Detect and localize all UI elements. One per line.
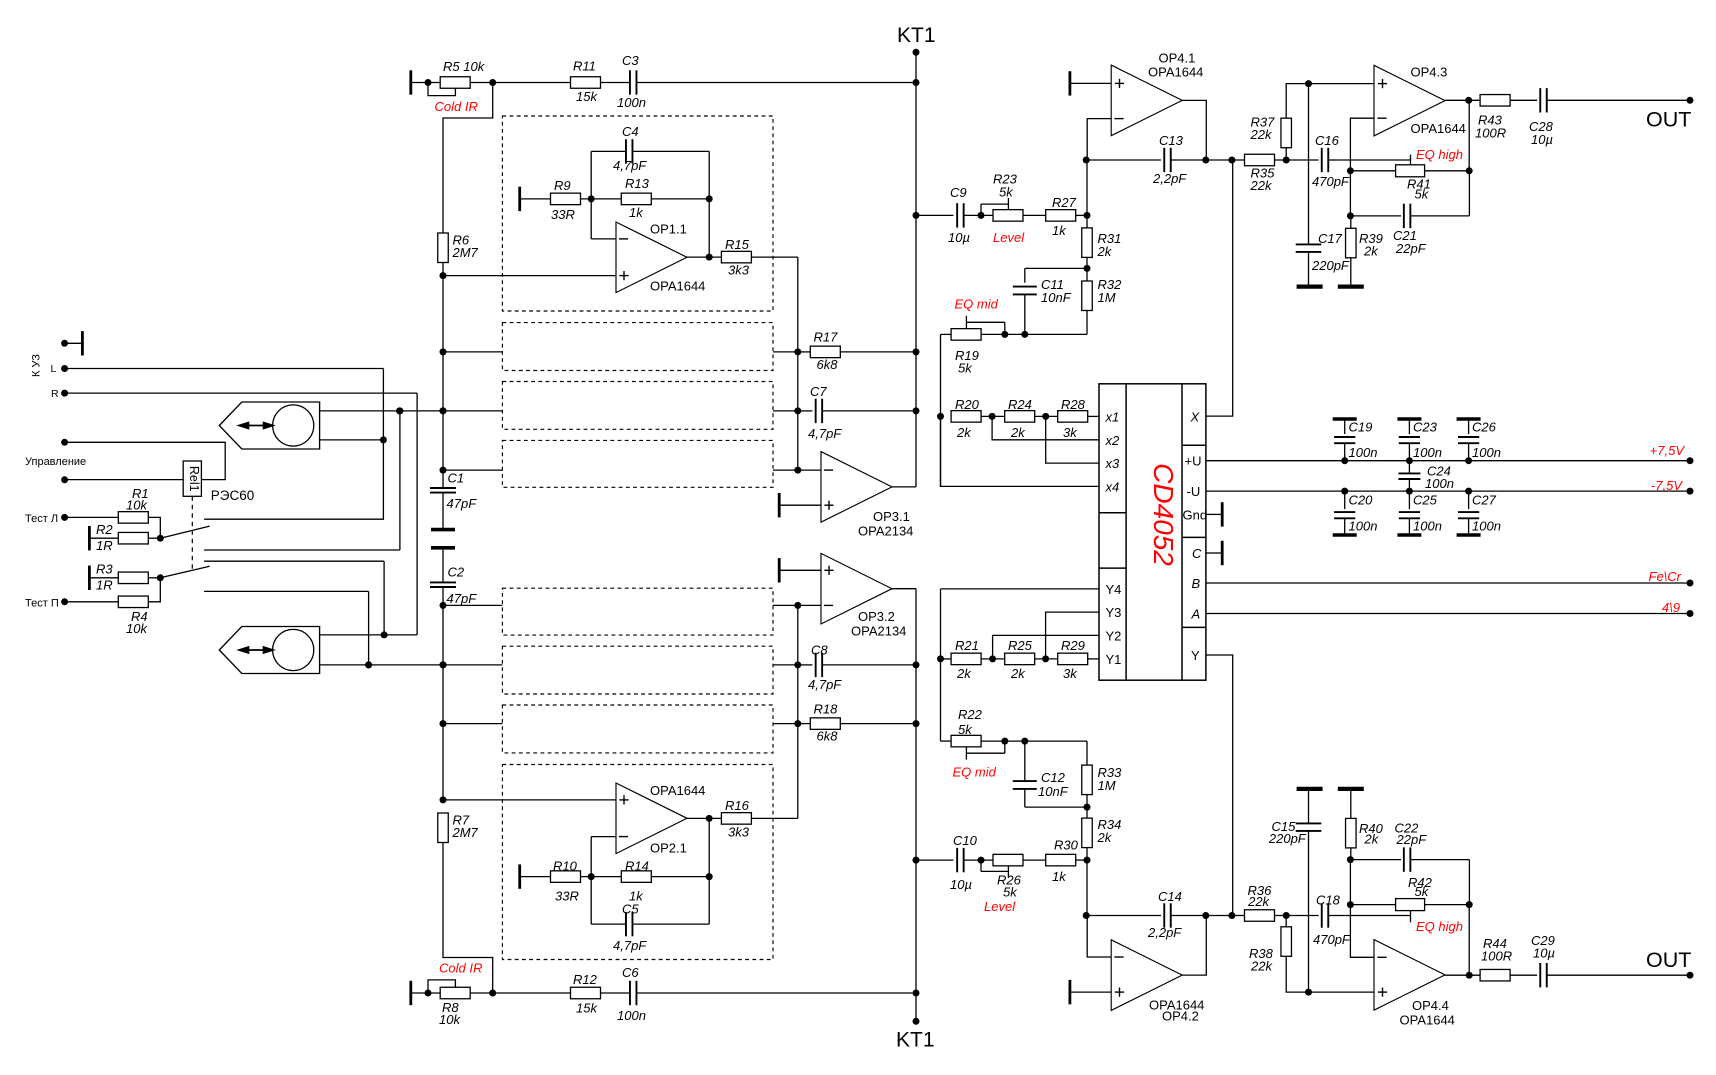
svg-text:100n: 100n — [1425, 476, 1454, 491]
svg-text:R3: R3 — [96, 562, 113, 577]
svg-text:B: B — [1192, 576, 1201, 591]
svg-text:100n: 100n — [617, 1008, 646, 1023]
svg-text:100n: 100n — [1413, 445, 1442, 460]
svg-text:Level: Level — [993, 230, 1025, 245]
svg-text:3k: 3k — [1063, 666, 1078, 681]
svg-text:OP1.1: OP1.1 — [650, 222, 687, 237]
svg-text:OPA1644: OPA1644 — [1148, 65, 1203, 80]
svg-text:1k: 1k — [629, 205, 644, 220]
svg-text:К УЗ: К УЗ — [31, 354, 43, 377]
svg-text:2k: 2k — [1097, 244, 1113, 259]
svg-text:100n: 100n — [1413, 519, 1442, 534]
svg-text:Y3: Y3 — [1106, 605, 1122, 620]
svg-text:OP4.4: OP4.4 — [1412, 998, 1449, 1013]
svg-text:R16: R16 — [725, 798, 750, 813]
svg-text:C3: C3 — [622, 53, 639, 68]
svg-text:R17: R17 — [814, 330, 839, 345]
svg-text:47pF: 47pF — [447, 591, 478, 606]
svg-text:3k3: 3k3 — [728, 263, 750, 278]
svg-text:C19: C19 — [1349, 420, 1373, 435]
svg-text:10k: 10k — [126, 498, 148, 513]
svg-text:R9: R9 — [554, 178, 571, 193]
svg-text:C27: C27 — [1472, 493, 1497, 508]
svg-text:R29: R29 — [1061, 638, 1085, 653]
svg-text:A: A — [1191, 607, 1201, 622]
svg-text:Тест Л: Тест Л — [25, 513, 58, 525]
svg-text:4,7pF: 4,7pF — [613, 158, 647, 173]
svg-text:47pF: 47pF — [447, 496, 478, 511]
svg-text:Y1: Y1 — [1106, 652, 1122, 667]
svg-text:C5: C5 — [622, 902, 639, 917]
svg-text:5k: 5k — [1415, 187, 1430, 202]
svg-text:2k: 2k — [1010, 666, 1026, 681]
svg-text:2,2pF: 2,2pF — [1147, 925, 1182, 940]
svg-text:R11: R11 — [573, 59, 596, 74]
svg-text:100n: 100n — [617, 95, 646, 110]
svg-text:R12: R12 — [573, 972, 598, 987]
svg-text:22k: 22k — [1247, 894, 1270, 909]
svg-text:6k8: 6k8 — [817, 357, 839, 372]
svg-text:10µ: 10µ — [1533, 946, 1555, 961]
svg-text:R13: R13 — [625, 176, 650, 191]
svg-text:2k: 2k — [956, 425, 972, 440]
svg-text:2k: 2k — [1097, 830, 1113, 845]
svg-text:4\9: 4\9 — [1662, 600, 1680, 615]
svg-text:Gnd: Gnd — [1183, 507, 1208, 522]
svg-text:10µ: 10µ — [948, 230, 970, 245]
svg-text:EQ mid: EQ mid — [953, 765, 997, 780]
svg-text:R18: R18 — [814, 702, 839, 717]
svg-text:5k: 5k — [999, 185, 1014, 200]
svg-text:R22: R22 — [958, 707, 983, 722]
svg-text:4,7pF: 4,7pF — [808, 426, 842, 441]
svg-text:OPA1644: OPA1644 — [1400, 1013, 1455, 1028]
svg-text:1k: 1k — [1052, 223, 1067, 238]
svg-text:OPA1644: OPA1644 — [650, 279, 705, 294]
svg-text:Y: Y — [1191, 648, 1200, 663]
svg-text:470pF: 470pF — [1313, 932, 1351, 947]
svg-text:Rel1: Rel1 — [187, 466, 201, 492]
svg-text:C10: C10 — [953, 833, 978, 848]
svg-text:4,7pF: 4,7pF — [613, 938, 647, 953]
svg-text:5k: 5k — [1415, 884, 1430, 899]
svg-text:KT1: KT1 — [897, 24, 936, 47]
svg-text:OP2.1: OP2.1 — [650, 841, 687, 856]
svg-text:C8: C8 — [811, 643, 828, 658]
svg-text:EQ mid: EQ mid — [955, 297, 999, 312]
svg-text:10µ: 10µ — [1531, 132, 1553, 147]
svg-text:Тест П: Тест П — [25, 598, 59, 610]
svg-text:100R: 100R — [1481, 949, 1512, 964]
svg-text:C18: C18 — [1316, 893, 1341, 908]
svg-text:3k: 3k — [1063, 425, 1078, 440]
svg-text:OP4.3: OP4.3 — [1411, 65, 1448, 80]
svg-text:L: L — [51, 363, 57, 375]
svg-text:15k: 15k — [576, 89, 598, 104]
svg-text:OP4.1: OP4.1 — [1159, 51, 1196, 66]
svg-text:1R: 1R — [96, 578, 113, 593]
svg-text:33R: 33R — [551, 207, 575, 222]
svg-text:C20: C20 — [1349, 493, 1374, 508]
svg-text:OPA2134: OPA2134 — [851, 624, 906, 639]
svg-text:100n: 100n — [1472, 445, 1501, 460]
svg-text:22k: 22k — [1250, 959, 1273, 974]
svg-text:100R: 100R — [1475, 126, 1506, 141]
svg-text:C12: C12 — [1041, 770, 1066, 785]
svg-text:33R: 33R — [555, 889, 579, 904]
svg-text:R30: R30 — [1054, 838, 1079, 853]
svg-text:C17: C17 — [1318, 231, 1343, 246]
svg-text:1R: 1R — [96, 538, 113, 553]
svg-text:Управление: Управление — [25, 456, 86, 468]
svg-text:OPA2134: OPA2134 — [858, 524, 913, 539]
svg-text:2k: 2k — [1363, 244, 1379, 259]
svg-text:C2: C2 — [448, 564, 465, 579]
svg-text:2k: 2k — [1010, 425, 1026, 440]
svg-text:5k: 5k — [1003, 885, 1018, 900]
svg-text:R14: R14 — [625, 859, 649, 874]
svg-text:C16: C16 — [1315, 133, 1340, 148]
svg-text:+7,5V: +7,5V — [1650, 443, 1686, 458]
svg-text:5k: 5k — [958, 722, 973, 737]
svg-text:C6: C6 — [622, 965, 639, 980]
svg-text:+U: +U — [1185, 454, 1202, 469]
svg-text:OP3.2: OP3.2 — [858, 609, 895, 624]
svg-text:C: C — [1192, 546, 1202, 561]
svg-text:OP3.1: OP3.1 — [873, 509, 910, 524]
svg-text:C14: C14 — [1158, 889, 1182, 904]
svg-text:R25: R25 — [1008, 638, 1033, 653]
svg-text:Y2: Y2 — [1106, 629, 1122, 644]
svg-text:Level: Level — [984, 899, 1016, 914]
svg-text:OUT: OUT — [1646, 108, 1691, 132]
svg-text:15k: 15k — [576, 1001, 598, 1016]
svg-text:10µ: 10µ — [950, 877, 972, 892]
svg-text:220pF: 220pF — [1268, 831, 1307, 846]
svg-text:1M: 1M — [1098, 778, 1116, 793]
svg-text:x3: x3 — [1105, 456, 1121, 471]
svg-text:X: X — [1190, 409, 1201, 424]
svg-text:1M: 1M — [1098, 290, 1116, 305]
svg-text:R20: R20 — [955, 397, 980, 412]
svg-text:6k8: 6k8 — [817, 729, 839, 744]
svg-text:Y4: Y4 — [1106, 582, 1122, 597]
svg-text:C23: C23 — [1413, 420, 1438, 435]
svg-text:OPA1644: OPA1644 — [1411, 121, 1466, 136]
svg-text:R28: R28 — [1061, 397, 1086, 412]
svg-text:-U: -U — [1187, 484, 1201, 499]
svg-text:C9: C9 — [950, 185, 967, 200]
svg-text:Fe\Cr: Fe\Cr — [1649, 569, 1682, 584]
svg-text:R15: R15 — [725, 237, 750, 252]
svg-text:4,7pF: 4,7pF — [808, 677, 842, 692]
svg-text:Cold IR: Cold IR — [435, 99, 478, 114]
svg-text:Cold IR: Cold IR — [439, 961, 482, 976]
svg-text:2k: 2k — [956, 666, 972, 681]
svg-text:1k: 1k — [1052, 869, 1067, 884]
svg-text:100n: 100n — [1472, 519, 1501, 534]
svg-text:РЭС60: РЭС60 — [211, 488, 254, 503]
svg-text:C7: C7 — [810, 384, 827, 399]
svg-text:R21: R21 — [955, 638, 979, 653]
svg-text:R2: R2 — [96, 522, 113, 537]
svg-text:10nF: 10nF — [1041, 290, 1072, 305]
svg-text:R5 10k: R5 10k — [443, 59, 486, 74]
svg-text:3k3: 3k3 — [728, 825, 750, 840]
svg-text:R: R — [51, 388, 59, 400]
svg-text:2k: 2k — [1364, 832, 1380, 847]
svg-text:2M7: 2M7 — [452, 245, 479, 260]
svg-text:C13: C13 — [1159, 133, 1184, 148]
svg-text:100n: 100n — [1349, 519, 1378, 534]
svg-text:2,2pF: 2,2pF — [1152, 171, 1187, 186]
svg-text:10k: 10k — [439, 1012, 461, 1027]
svg-text:5k: 5k — [958, 361, 973, 376]
svg-text:R24: R24 — [1008, 397, 1032, 412]
svg-text:KT1: KT1 — [896, 1029, 935, 1052]
svg-text:CD4052: CD4052 — [1148, 463, 1179, 566]
svg-text:470pF: 470pF — [1312, 174, 1350, 189]
svg-text:10nF: 10nF — [1038, 784, 1069, 799]
svg-text:C25: C25 — [1413, 493, 1438, 508]
svg-text:22pF: 22pF — [1395, 241, 1427, 256]
svg-text:22k: 22k — [1250, 178, 1273, 193]
svg-text:OP4.2: OP4.2 — [1162, 1009, 1199, 1024]
svg-text:100n: 100n — [1349, 445, 1378, 460]
svg-text:10k: 10k — [126, 621, 148, 636]
svg-text:22k: 22k — [1250, 127, 1273, 142]
svg-text:C1: C1 — [448, 471, 465, 486]
svg-text:R27: R27 — [1052, 195, 1077, 210]
svg-text:OUT: OUT — [1646, 948, 1691, 972]
svg-text:OPA1644: OPA1644 — [650, 783, 705, 798]
svg-text:220pF: 220pF — [1311, 258, 1350, 273]
svg-text:C4: C4 — [622, 124, 639, 139]
svg-text:C26: C26 — [1472, 420, 1497, 435]
svg-text:22pF: 22pF — [1396, 832, 1428, 847]
svg-text:-7,5V: -7,5V — [1651, 478, 1683, 493]
svg-text:x1: x1 — [1105, 410, 1120, 425]
svg-text:2M7: 2M7 — [452, 825, 479, 840]
svg-text:EQ high: EQ high — [1416, 919, 1463, 934]
svg-text:x4: x4 — [1105, 480, 1120, 495]
svg-text:x2: x2 — [1105, 433, 1121, 448]
svg-text:R10: R10 — [553, 859, 578, 874]
svg-text:EQ high: EQ high — [1416, 147, 1463, 162]
